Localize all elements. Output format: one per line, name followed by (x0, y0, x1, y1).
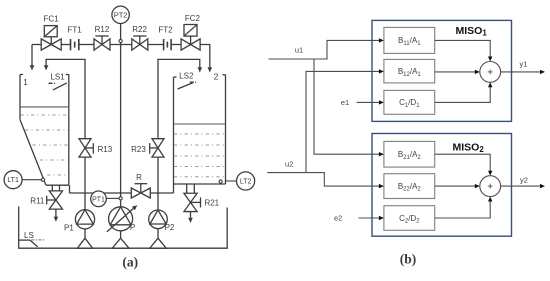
svg-text:R23: R23 (131, 145, 146, 154)
svg-text:FC1: FC1 (43, 15, 59, 24)
svg-text:y1: y1 (520, 60, 528, 69)
svg-text:u2: u2 (285, 159, 293, 168)
svg-text:PT1: PT1 (92, 196, 105, 203)
svg-text:LS2: LS2 (179, 72, 194, 81)
svg-text:R: R (136, 173, 142, 182)
svg-text:R12: R12 (95, 25, 110, 34)
svg-text:LT1: LT1 (7, 177, 19, 184)
svg-text:LS1: LS1 (50, 73, 65, 82)
svg-text:2: 2 (214, 72, 219, 82)
svg-text:PT2: PT2 (114, 11, 128, 20)
svg-text:P: P (130, 223, 135, 232)
svg-text:P2: P2 (165, 223, 175, 232)
svg-text:LT2: LT2 (240, 179, 252, 186)
svg-text:FT2: FT2 (158, 25, 173, 34)
svg-text:u1: u1 (295, 46, 303, 55)
svg-text:e2: e2 (334, 214, 342, 223)
svg-text:(b): (b) (400, 252, 417, 267)
svg-text:R13: R13 (98, 145, 113, 154)
svg-text:y2: y2 (520, 176, 528, 185)
svg-text:(a): (a) (122, 255, 138, 270)
svg-text:FC2: FC2 (185, 14, 201, 23)
svg-text:R22: R22 (132, 25, 147, 34)
svg-text:LS: LS (24, 231, 34, 240)
svg-text:1: 1 (23, 77, 28, 87)
svg-text:FT1: FT1 (67, 25, 82, 34)
svg-text:R11: R11 (30, 197, 45, 206)
svg-text:e1: e1 (341, 98, 349, 107)
svg-text:P1: P1 (64, 224, 74, 233)
svg-text:R21: R21 (204, 199, 219, 208)
